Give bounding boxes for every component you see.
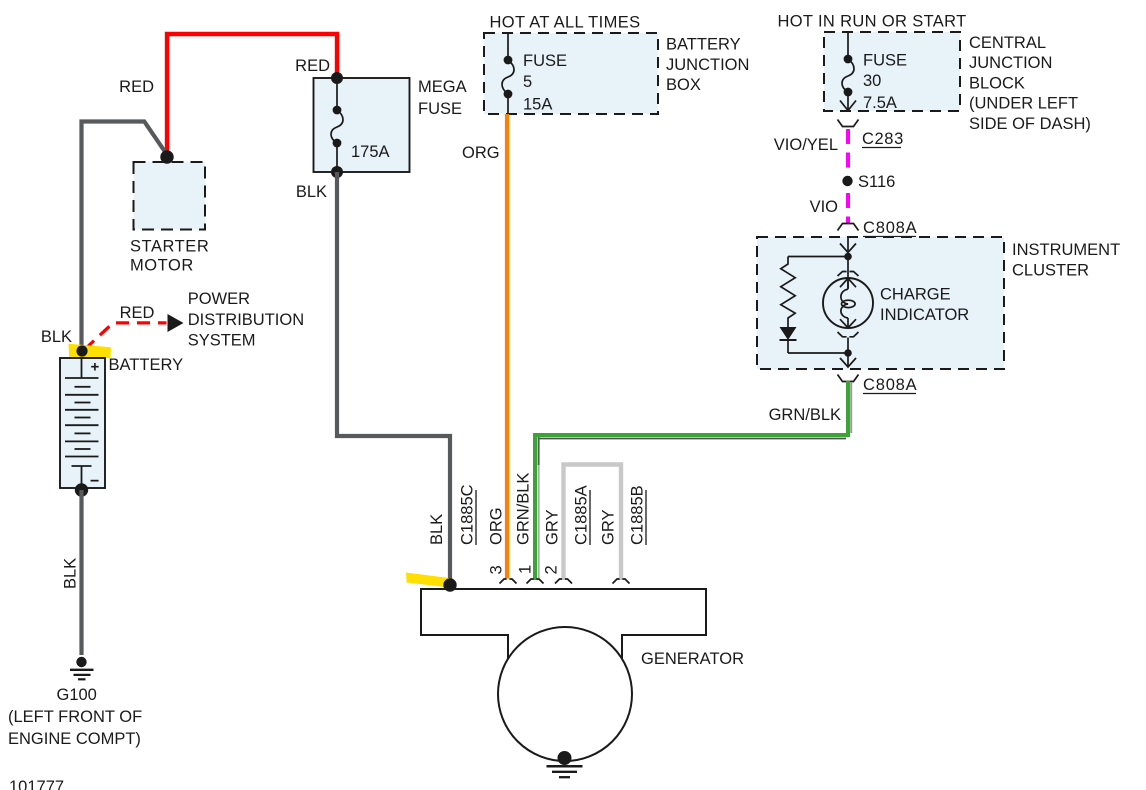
svg-text:G100: G100 xyxy=(57,686,97,704)
node red to mega fuse xyxy=(331,72,343,84)
fuse F5 lead bottom xyxy=(507,94,509,114)
battery cells xyxy=(65,358,99,488)
generator outline xyxy=(421,589,706,659)
fuse F5 lead top xyxy=(507,33,509,60)
svg-text:RED: RED xyxy=(295,57,330,75)
highlight mark battery terminal xyxy=(69,344,112,358)
svg-text:7.5A: 7.5A xyxy=(863,94,897,112)
wire VIO/YEL (magenta dashed) xyxy=(846,129,850,177)
label C808A bottom xyxy=(863,376,917,394)
svg-text:+: + xyxy=(91,359,100,376)
label CENTRAL JUNCTION BLOCK xyxy=(969,34,1091,133)
svg-text:FUSE: FUSE xyxy=(418,100,462,118)
connector C1885B half xyxy=(613,579,630,584)
battery junction box outline xyxy=(484,33,658,114)
wire GRN/BLK dark stripe under horizontal xyxy=(538,438,846,440)
svg-text:30: 30 xyxy=(863,72,881,90)
ground at generator xyxy=(547,766,583,777)
svg-text:RED: RED xyxy=(120,304,155,322)
svg-text:C1885C: C1885C xyxy=(459,484,477,545)
svg-text:HOT IN RUN OR START: HOT IN RUN OR START xyxy=(777,13,966,31)
svg-text:BLK: BLK xyxy=(428,514,446,545)
fuse F30 lead top xyxy=(847,32,849,59)
label C808A top xyxy=(863,219,917,237)
svg-text:STARTER: STARTER xyxy=(130,238,209,256)
instrument cluster outline xyxy=(757,237,1004,369)
node generator ground xyxy=(558,751,572,765)
fuse F5 element xyxy=(502,56,514,99)
svg-text:1: 1 xyxy=(517,565,535,574)
node battery negative xyxy=(75,483,88,496)
arrow to power distribution system xyxy=(168,314,184,332)
svg-text:GRN/BLK: GRN/BLK xyxy=(769,406,841,424)
battery outline xyxy=(60,358,105,488)
svg-text:DISTRIBUTION: DISTRIBUTION xyxy=(188,311,304,329)
svg-text:3: 3 xyxy=(488,565,506,574)
svg-text:ENGINE COMPT): ENGINE COMPT) xyxy=(8,730,141,748)
svg-text:C808A: C808A xyxy=(863,219,917,237)
wire RED dashed to power distribution xyxy=(85,323,167,350)
label C283 xyxy=(862,130,904,148)
node bottom junction xyxy=(844,349,852,357)
generator body circle xyxy=(498,627,632,761)
svg-text:CLUSTER: CLUSTER xyxy=(1012,261,1089,279)
wire lamp top lead xyxy=(847,257,849,289)
splice S116 xyxy=(842,176,852,186)
svg-text:BLK: BLK xyxy=(296,183,327,201)
svg-text:CHARGE: CHARGE xyxy=(880,286,951,304)
svg-text:GRY: GRY xyxy=(544,510,562,545)
node top junction xyxy=(844,253,852,261)
svg-text:SIDE OF DASH): SIDE OF DASH) xyxy=(969,115,1091,133)
central junction block outline xyxy=(824,32,960,111)
wire lamp bottom lead xyxy=(847,338,849,354)
svg-text:POWER: POWER xyxy=(188,290,250,308)
connector C808A bottom xyxy=(838,375,859,382)
label INSTRUMENT CLUSTER xyxy=(1012,241,1120,279)
svg-text:VIO/YEL: VIO/YEL xyxy=(774,136,838,154)
connector pin 2 half xyxy=(555,579,572,584)
node battery positive xyxy=(76,345,87,356)
connector pin 3 half xyxy=(500,579,517,584)
svg-text:SYSTEM: SYSTEM xyxy=(188,331,256,349)
svg-text:ORG: ORG xyxy=(462,144,500,162)
svg-text:GRN/BLK: GRN/BLK xyxy=(515,473,533,545)
label BATTERY JUNCTION BOX xyxy=(666,36,749,95)
ground G100 xyxy=(70,657,94,680)
wire BLK battery to starter xyxy=(82,122,167,359)
svg-text:175A: 175A xyxy=(351,143,390,161)
svg-text:15A: 15A xyxy=(523,96,552,114)
wire BLK mega fuse to generator xyxy=(337,172,450,582)
vertical label C1885B underlined xyxy=(629,485,647,545)
svg-text:C1885A: C1885A xyxy=(573,485,591,545)
connector half (lamp top) xyxy=(838,272,859,277)
connector half (lamp bottom) xyxy=(838,332,859,337)
svg-text:INDICATOR: INDICATOR xyxy=(880,306,969,324)
wire VIO (magenta dashed) xyxy=(846,186,850,223)
svg-text:BATTERY: BATTERY xyxy=(666,36,741,54)
mega fuse outline xyxy=(314,78,410,172)
wire GRN/BLK gray stripe right of cluster drop xyxy=(850,382,852,433)
svg-text:C808A: C808A xyxy=(863,376,917,394)
svg-text:ORG: ORG xyxy=(488,507,506,545)
svg-text:CENTRAL: CENTRAL xyxy=(969,34,1046,52)
connector pin 1 half xyxy=(527,579,544,584)
highlight mark generator BLK terminal xyxy=(406,573,449,588)
node mega fuse bottom xyxy=(331,166,343,178)
vertical label C1885A underlined xyxy=(573,485,591,545)
wire BLK battery to ground xyxy=(79,490,83,655)
svg-text:HOT AT ALL TIMES: HOT AT ALL TIMES xyxy=(490,14,641,32)
wire GRN/BLK from cluster to generator xyxy=(535,381,848,580)
connector C808A top xyxy=(838,224,859,231)
wire ORG fuse to generator xyxy=(505,114,509,579)
svg-text:5: 5 xyxy=(523,73,532,91)
svg-text:RED: RED xyxy=(119,78,154,96)
svg-text:JUNCTION: JUNCTION xyxy=(969,54,1052,72)
label G100 and location xyxy=(8,686,142,748)
wire branch to resistor xyxy=(788,256,848,258)
fuse value labels FUSE 30 7.5A xyxy=(863,52,907,112)
label CHARGE INDICATOR xyxy=(880,286,969,325)
svg-text:BATTERY: BATTERY xyxy=(109,356,184,374)
svg-text:−: − xyxy=(90,473,99,490)
fuse F30 element xyxy=(842,55,854,97)
vertical label C1885C underlined xyxy=(459,484,477,545)
svg-text:FUSE: FUSE xyxy=(863,52,907,70)
charge indicator lamp xyxy=(823,278,873,328)
svg-text:MEGA: MEGA xyxy=(418,78,467,96)
fuse F30 lead bottom with arrow xyxy=(840,92,856,111)
svg-text:FUSE: FUSE xyxy=(523,52,567,70)
wire RED battery feed xyxy=(167,34,337,153)
svg-text:MOTOR: MOTOR xyxy=(130,257,194,275)
svg-text:GENERATOR: GENERATOR xyxy=(641,650,744,668)
svg-text:VIO: VIO xyxy=(810,198,839,216)
diode (cluster) xyxy=(780,327,797,353)
svg-text:(LEFT FRONT OF: (LEFT FRONT OF xyxy=(8,708,142,726)
svg-text:GRY: GRY xyxy=(600,510,618,545)
wire GRY loop C1885A to C1885B xyxy=(564,465,622,581)
resistor (cluster) xyxy=(781,257,795,328)
svg-text:2: 2 xyxy=(543,565,561,574)
label MEGA FUSE xyxy=(418,78,467,118)
svg-text:BLK: BLK xyxy=(41,328,72,346)
wire entry with arrow into cluster xyxy=(840,237,856,253)
node starter motor terminal xyxy=(160,150,173,163)
wire branch bottom from diode xyxy=(788,352,848,354)
svg-text:JUNCTION: JUNCTION xyxy=(666,56,749,74)
label POWER DISTRIBUTION SYSTEM xyxy=(188,290,304,349)
svg-text:101777: 101777 xyxy=(9,778,64,790)
svg-text:INSTRUMENT: INSTRUMENT xyxy=(1012,241,1120,259)
svg-text:(UNDER LEFT: (UNDER LEFT xyxy=(969,95,1078,113)
svg-text:C283: C283 xyxy=(862,130,904,148)
wire exit with arrow xyxy=(840,353,856,367)
wire GRN/BLK light stripe right of generator drop xyxy=(538,465,540,578)
mega fuse element xyxy=(331,78,343,172)
svg-text:BOX: BOX xyxy=(666,76,701,94)
connector C283 xyxy=(838,120,859,127)
fuse value labels FUSE 5 15A xyxy=(523,52,567,114)
svg-text:C1885B: C1885B xyxy=(629,485,647,545)
svg-text:BLK: BLK xyxy=(62,558,80,589)
svg-text:BLOCK: BLOCK xyxy=(969,74,1025,92)
svg-text:S116: S116 xyxy=(858,173,895,191)
starter motor outline xyxy=(134,162,206,230)
label STARTER MOTOR xyxy=(130,238,209,275)
wire GRN/BLK dark stripe remnant xyxy=(538,437,540,465)
node BLK at generator xyxy=(443,578,456,591)
